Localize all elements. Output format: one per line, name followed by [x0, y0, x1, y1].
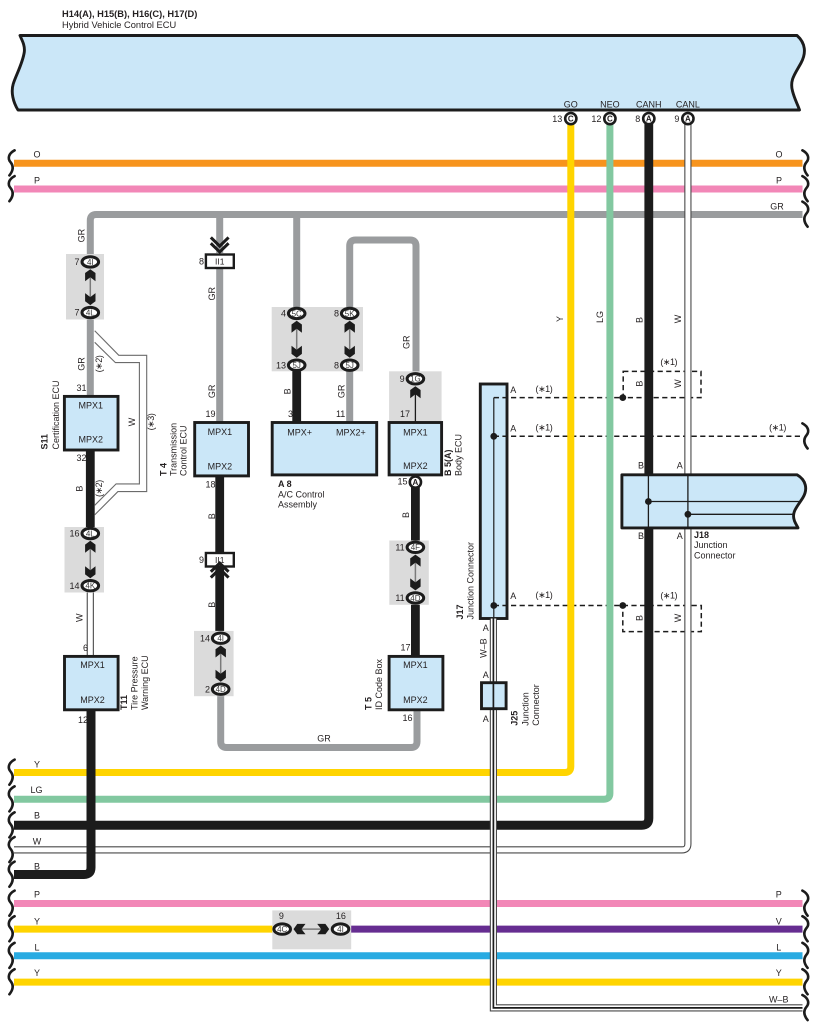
svg-text:T 4: T 4 [159, 463, 169, 476]
svg-text:H14(A), H15(B), H16(C), H17(D): H14(A), H15(B), H16(C), H17(D) [62, 9, 197, 19]
svg-text:4I: 4I [217, 634, 224, 643]
svg-text:5C: 5C [292, 309, 302, 318]
svg-text:LG: LG [30, 785, 42, 795]
wire GR loop 5K to 1G [350, 240, 416, 374]
svg-text:MPX+: MPX+ [287, 428, 312, 438]
connector 4F pin 11 [407, 542, 424, 552]
svg-text:P: P [776, 176, 782, 186]
svg-text:A: A [510, 385, 516, 395]
junction connector J25 [482, 683, 507, 709]
svg-text:9: 9 [674, 114, 679, 124]
wire L blue band [14, 952, 803, 959]
svg-text:19: 19 [205, 409, 215, 419]
svg-text:Connector: Connector [531, 684, 541, 726]
svg-text:GR: GR [317, 734, 331, 744]
dashed option box (*1) lower [623, 606, 702, 632]
1G to pin 17 thin wire [414, 392, 416, 423]
svg-text:GR: GR [336, 384, 346, 398]
svg-text:MPX2+: MPX2+ [336, 428, 366, 438]
svg-text:7: 7 [74, 308, 79, 318]
svg-text:MPX2: MPX2 [80, 695, 105, 705]
svg-text:MPX1: MPX1 [79, 401, 104, 411]
connector 5J pin 8 [341, 360, 358, 370]
svg-text:Tire Pressure: Tire Pressure [130, 656, 140, 710]
wire GR A8 5J to pin 11 [346, 368, 353, 423]
svg-text:B: B [638, 531, 644, 541]
svg-text:MPX1: MPX1 [80, 660, 105, 670]
svg-text:Connector: Connector [694, 550, 736, 560]
connector 4K pin 14 [82, 581, 99, 591]
wire W CANL white wire band [14, 124, 688, 850]
svg-text:(∗2): (∗2) [94, 480, 104, 497]
connector 5J pin 13 [288, 360, 305, 370]
dashed wire J17 pin A to option box upper [494, 397, 623, 399]
wire W optional bypass (*3) outer line [95, 331, 147, 515]
svg-text:Y: Y [34, 916, 40, 926]
svg-text:11: 11 [395, 542, 404, 552]
svg-text:Hybrid Vehicle Control ECU: Hybrid Vehicle Control ECU [62, 20, 176, 30]
ECU B5(A) Body ECU [389, 423, 442, 475]
svg-text:Assembly: Assembly [278, 500, 318, 510]
junction connector J18 [622, 475, 806, 528]
wire W optional bypass (*3) inner line [95, 342, 140, 505]
connector 4I pin 14 [212, 633, 229, 643]
svg-text:B 5(A): B 5(A) [443, 449, 453, 476]
wire B CANH upper segment [644, 124, 653, 476]
svg-text:A: A [646, 115, 652, 124]
svg-text:W: W [33, 836, 42, 846]
svg-text:5J: 5J [292, 361, 300, 370]
pin 9 A of CANL [682, 113, 693, 124]
svg-text:CANL: CANL [676, 100, 700, 110]
svg-text:A/C Control: A/C Control [278, 489, 325, 499]
svg-text:17: 17 [400, 643, 410, 653]
wire B B5 pin 15 to 4F [411, 483, 420, 543]
svg-text:P: P [34, 889, 40, 899]
svg-text:13: 13 [276, 360, 286, 370]
dashed wire J17 pin A to option box lower [494, 605, 623, 607]
J18 internal wire A branch [688, 513, 795, 515]
wire B T11 pin 12 to left edge band [14, 709, 91, 875]
svg-text:J17: J17 [455, 604, 465, 619]
svg-text:Y: Y [34, 968, 40, 978]
svg-text:W: W [673, 379, 683, 388]
svg-text:MPX2: MPX2 [403, 695, 428, 705]
svg-text:B: B [207, 602, 217, 608]
wire B 4D to T5 pin 17 [411, 601, 420, 657]
svg-text:S11: S11 [40, 434, 50, 450]
wire P pink band top [14, 186, 803, 193]
svg-text:Y: Y [34, 759, 40, 769]
svg-text:O: O [775, 150, 782, 160]
svg-text:Warning ECU: Warning ECU [140, 655, 150, 710]
svg-text:MPX1: MPX1 [403, 428, 428, 438]
wire GR main gray band [90, 215, 802, 263]
svg-text:O: O [33, 150, 40, 160]
svg-text:3: 3 [288, 409, 293, 419]
svg-text:C: C [607, 115, 613, 124]
svg-text:W: W [75, 613, 85, 622]
svg-text:Junction: Junction [694, 540, 728, 550]
svg-text:8: 8 [334, 360, 339, 370]
svg-text:(∗1): (∗1) [660, 591, 677, 601]
ECU T4 Transmission Control ECU [195, 423, 249, 476]
svg-text:A: A [483, 714, 489, 724]
svg-text:4K: 4K [85, 582, 95, 591]
connector 5C pin 4 [288, 308, 305, 318]
svg-text:A: A [510, 423, 516, 433]
J17 internal wire [493, 398, 495, 617]
svg-text:(∗1): (∗1) [536, 590, 553, 600]
svg-text:8: 8 [635, 114, 640, 124]
connector 4C pin 9 [274, 924, 291, 934]
svg-text:4F: 4F [411, 543, 420, 552]
wire B S11 pin 32 to 4L [86, 449, 95, 530]
pin 13 C of GO [565, 113, 576, 124]
svg-text:4L: 4L [86, 309, 95, 318]
svg-text:GR: GR [207, 287, 217, 301]
svg-text:NEO: NEO [600, 100, 620, 110]
svg-text:2: 2 [205, 684, 210, 694]
svg-text:B: B [34, 861, 40, 871]
wire B T4 pin 18 to II1 [215, 475, 224, 554]
svg-text:L: L [776, 943, 781, 953]
connector pair 4F/4D shade box [389, 541, 429, 605]
pin 15 circle A [410, 477, 421, 488]
svg-text:II1: II1 [215, 257, 225, 267]
wire W-B J17 to bottom band [493, 619, 802, 1008]
connector 4L pin 7 [82, 307, 99, 317]
wire GR S11 4L to MPX1 pin 31 [87, 316, 94, 397]
svg-text:L: L [34, 943, 39, 953]
svg-text:A: A [483, 670, 489, 680]
svg-text:J25: J25 [510, 711, 520, 726]
svg-text:Control ECU: Control ECU [179, 425, 189, 476]
svg-text:A: A [677, 531, 683, 541]
right break symbols [802, 150, 808, 175]
svg-text:16: 16 [69, 529, 79, 539]
svg-text:4L: 4L [86, 529, 95, 538]
svg-text:4D: 4D [410, 594, 420, 603]
svg-text:P: P [34, 176, 40, 186]
junction dot J18 B [645, 498, 652, 505]
junction dot at upper option box [619, 394, 626, 401]
svg-text:A: A [483, 623, 489, 633]
svg-text:CANH: CANH [636, 100, 662, 110]
J18 internal wire A [687, 476, 689, 527]
svg-text:B: B [207, 513, 217, 519]
svg-text:(∗1): (∗1) [536, 384, 553, 394]
svg-text:A: A [413, 478, 419, 487]
wire Y yellow band to 4C [14, 926, 273, 933]
svg-text:W: W [127, 417, 137, 426]
ECU A8 A/C Control Assembly [272, 423, 377, 475]
connector II1 pin 9 with chevrons [206, 553, 234, 567]
svg-text:P: P [776, 890, 782, 900]
svg-text:16: 16 [402, 713, 412, 723]
svg-text:B: B [34, 811, 40, 821]
svg-text:B: B [635, 317, 645, 323]
connector pair 4L/4K shade box [65, 527, 105, 593]
connector pair 4C/4I shade box bottom [272, 910, 351, 949]
svg-text:Junction: Junction [521, 692, 531, 726]
svg-text:(∗2): (∗2) [94, 355, 104, 372]
svg-text:1G: 1G [410, 375, 421, 384]
svg-text:(∗1): (∗1) [769, 422, 786, 432]
svg-text:8: 8 [199, 257, 204, 267]
svg-text:12: 12 [78, 715, 88, 725]
svg-text:ID Code Box: ID Code Box [374, 658, 384, 710]
svg-text:Certification ECU: Certification ECU [51, 380, 61, 449]
wire B T4 II1 to 4I [215, 566, 224, 634]
svg-text:(∗3): (∗3) [146, 413, 156, 430]
svg-text:11: 11 [336, 409, 345, 419]
wire LG green band with corner to NEO [14, 124, 610, 799]
wire GR loop T4 4D to T5 pin 16 [221, 692, 417, 748]
J25 internal wire [492, 684, 494, 708]
pin 12 C of NEO [604, 113, 615, 124]
junction dot J17 pin A middle [490, 433, 497, 440]
svg-text:W: W [673, 613, 683, 622]
ECU S11 Certification ECU [64, 396, 118, 450]
svg-text:A: A [677, 461, 683, 471]
svg-text:4I: 4I [337, 925, 344, 934]
ECU T5 ID Code Box [389, 656, 443, 709]
J18 internal wire B branch [648, 501, 799, 503]
svg-text:4C: 4C [277, 925, 287, 934]
wire P pink band bottom [14, 900, 803, 907]
connector 1G pin 9 [407, 374, 424, 384]
svg-text:16: 16 [336, 911, 346, 921]
connector 4I pin 16 [332, 924, 349, 934]
wire Y yellow band bottom [14, 979, 803, 986]
horizontal pair arrows 4C-4I [296, 928, 327, 930]
connector 4D pin 11 [407, 593, 424, 603]
connector 4I pin 7 [82, 257, 99, 267]
svg-text:W–B: W–B [769, 994, 789, 1004]
svg-text:GO: GO [564, 100, 578, 110]
svg-text:GR: GR [402, 335, 412, 349]
svg-text:12: 12 [591, 114, 601, 124]
svg-text:B: B [75, 486, 85, 492]
svg-text:MPX1: MPX1 [208, 427, 233, 437]
svg-text:W: W [673, 314, 683, 323]
svg-text:B: B [635, 615, 645, 621]
svg-text:C: C [568, 115, 574, 124]
svg-text:W–B: W–B [478, 638, 488, 658]
svg-text:Y: Y [555, 316, 565, 322]
svg-text:7: 7 [74, 257, 79, 267]
junction dot J17 pin A lower [490, 602, 497, 609]
svg-text:9: 9 [279, 911, 284, 921]
svg-text:14: 14 [200, 633, 210, 643]
J18 internal wire B [647, 476, 649, 527]
svg-text:T 5: T 5 [364, 697, 374, 710]
Hybrid Vehicle Control ECU H14/H15/H16/H17 band [12, 36, 804, 111]
connector pair 4I/4D shade box T4 column [194, 631, 234, 696]
svg-text:A: A [510, 591, 516, 601]
svg-text:LG: LG [595, 311, 605, 323]
svg-text:4I: 4I [87, 258, 94, 267]
dashed option box (*1) upper [623, 371, 701, 397]
ECU T11 Tire Pressure Warning ECU [65, 656, 119, 709]
svg-text:5J: 5J [345, 361, 353, 370]
svg-text:GR: GR [77, 357, 87, 371]
wire Y yellow band with corner to GO [14, 124, 571, 773]
junction dot J18 A [685, 511, 692, 518]
wire B A8 5J to pin 3 [292, 368, 301, 423]
svg-text:11: 11 [395, 593, 404, 603]
svg-text:B: B [635, 381, 645, 387]
connector 5K pin 8 [341, 308, 358, 318]
svg-text:B: B [283, 388, 293, 394]
wire GR branch to A8 5C [293, 216, 300, 310]
svg-text:8: 8 [334, 309, 339, 319]
svg-text:T11: T11 [119, 695, 129, 710]
svg-text:GR: GR [770, 201, 784, 211]
svg-text:GR: GR [77, 228, 87, 242]
svg-text:4: 4 [281, 309, 286, 319]
pin 8 A of CANH [643, 113, 654, 124]
connector 1G shade box [389, 371, 442, 422]
svg-text:MPX2: MPX2 [208, 462, 233, 472]
svg-text:13: 13 [552, 114, 562, 124]
svg-text:MPX2: MPX2 [403, 461, 428, 471]
junction dot at lower option box [619, 602, 626, 609]
svg-text:Transmission: Transmission [169, 423, 179, 476]
svg-text:(∗1): (∗1) [660, 357, 677, 367]
svg-text:A: A [685, 115, 691, 124]
svg-text:B: B [401, 512, 411, 518]
svg-text:18: 18 [205, 479, 215, 489]
svg-text:V: V [776, 916, 782, 926]
svg-text:31: 31 [76, 383, 86, 393]
svg-text:32: 32 [76, 453, 86, 463]
svg-text:15: 15 [397, 476, 407, 486]
svg-text:Body ECU: Body ECU [454, 434, 464, 476]
junction connector J17 [480, 384, 507, 619]
svg-text:B: B [638, 461, 644, 471]
wire V violet band from 4I [350, 926, 803, 933]
connector II1 pin 8 with chevrons [212, 239, 228, 247]
dashed wire J17 pin A across page (*1) [494, 435, 803, 437]
svg-text:5K: 5K [345, 309, 355, 318]
svg-text:14: 14 [69, 581, 79, 591]
wire GR branch to T4 [216, 216, 223, 253]
svg-text:MPX2: MPX2 [79, 434, 104, 444]
connector 4L pin 16 [82, 528, 99, 538]
svg-text:9: 9 [199, 555, 204, 565]
wire GR T4 II1 to MPX1 pin 19 [216, 267, 223, 423]
connector 4D pin 2 [212, 684, 229, 694]
left break symbols [9, 150, 15, 175]
connector quad 5C/5J/5K/5J shade box [272, 307, 363, 371]
svg-text:17: 17 [400, 409, 410, 419]
wire O orange band [14, 160, 803, 167]
svg-text:GR: GR [207, 384, 217, 398]
svg-text:A 8: A 8 [278, 479, 292, 489]
svg-text:Y: Y [776, 968, 782, 978]
wire B black band with corner to CANH [14, 527, 649, 826]
connector pair 4I/4L shade box [66, 254, 104, 320]
wire W 4K to T11 pin 6 [87, 589, 94, 657]
svg-text:MPX1: MPX1 [403, 660, 428, 670]
svg-text:J18: J18 [694, 530, 709, 540]
svg-text:6: 6 [83, 643, 88, 653]
svg-text:9: 9 [400, 374, 405, 384]
svg-text:4D: 4D [216, 685, 226, 694]
svg-text:Junction Connector: Junction Connector [465, 542, 475, 620]
svg-text:(∗1): (∗1) [536, 423, 553, 433]
